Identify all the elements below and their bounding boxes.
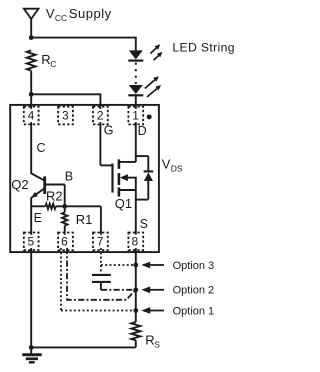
svg-text:D: D	[138, 124, 147, 138]
svg-text:3: 3	[62, 109, 69, 123]
svg-text:R: R	[145, 332, 154, 347]
svg-text:Option 1: Option 1	[173, 305, 215, 317]
svg-text:5: 5	[28, 235, 35, 249]
svg-text:8: 8	[132, 235, 139, 249]
svg-text:R1: R1	[76, 212, 93, 227]
svg-text:Supply: Supply	[69, 6, 112, 21]
svg-text:Option 2: Option 2	[173, 285, 215, 297]
svg-text:Q2: Q2	[11, 177, 28, 192]
svg-text:R2: R2	[46, 189, 63, 204]
svg-text:7: 7	[97, 235, 104, 249]
svg-text:R: R	[41, 52, 50, 67]
svg-text:1: 1	[132, 109, 139, 123]
svg-text:G: G	[104, 123, 114, 137]
svg-text:LED String: LED String	[172, 41, 234, 55]
svg-text:S: S	[140, 217, 148, 231]
svg-text:CC: CC	[55, 13, 67, 23]
svg-text:C: C	[37, 141, 46, 155]
svg-text:6: 6	[61, 235, 68, 249]
svg-text:4: 4	[28, 109, 35, 123]
svg-text:E: E	[34, 211, 42, 225]
svg-text:Q1: Q1	[115, 196, 132, 211]
svg-text:V: V	[162, 157, 171, 172]
svg-text:2: 2	[97, 109, 104, 123]
svg-text:Option 3: Option 3	[173, 260, 215, 272]
svg-text:S: S	[154, 339, 160, 349]
svg-text:DS: DS	[171, 164, 183, 174]
svg-text:C: C	[50, 59, 56, 69]
svg-text:B: B	[65, 169, 73, 183]
svg-text:V: V	[46, 6, 55, 21]
